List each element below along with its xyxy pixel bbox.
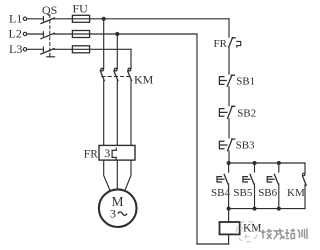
svg-text:QS: QS (42, 3, 57, 17)
svg-text:SB3: SB3 (236, 139, 255, 151)
svg-text:SB2: SB2 (237, 107, 256, 119)
svg-text:L3: L3 (9, 42, 22, 56)
svg-text:SB1: SB1 (236, 76, 255, 88)
svg-text:L1: L1 (9, 12, 22, 26)
svg-text:FU: FU (73, 2, 89, 16)
svg-text:KM: KM (287, 187, 305, 199)
svg-text:FR: FR (214, 38, 228, 50)
svg-text:L2: L2 (9, 27, 22, 41)
svg-text:3: 3 (110, 206, 116, 220)
svg-text:KM: KM (134, 73, 154, 87)
svg-text:SB5: SB5 (233, 187, 252, 199)
svg-text:SB6: SB6 (258, 187, 277, 199)
svg-text:SB4: SB4 (211, 187, 230, 199)
svg-text:3: 3 (104, 146, 110, 160)
svg-text:KM: KM (243, 222, 262, 234)
svg-text:FR: FR (84, 148, 98, 160)
